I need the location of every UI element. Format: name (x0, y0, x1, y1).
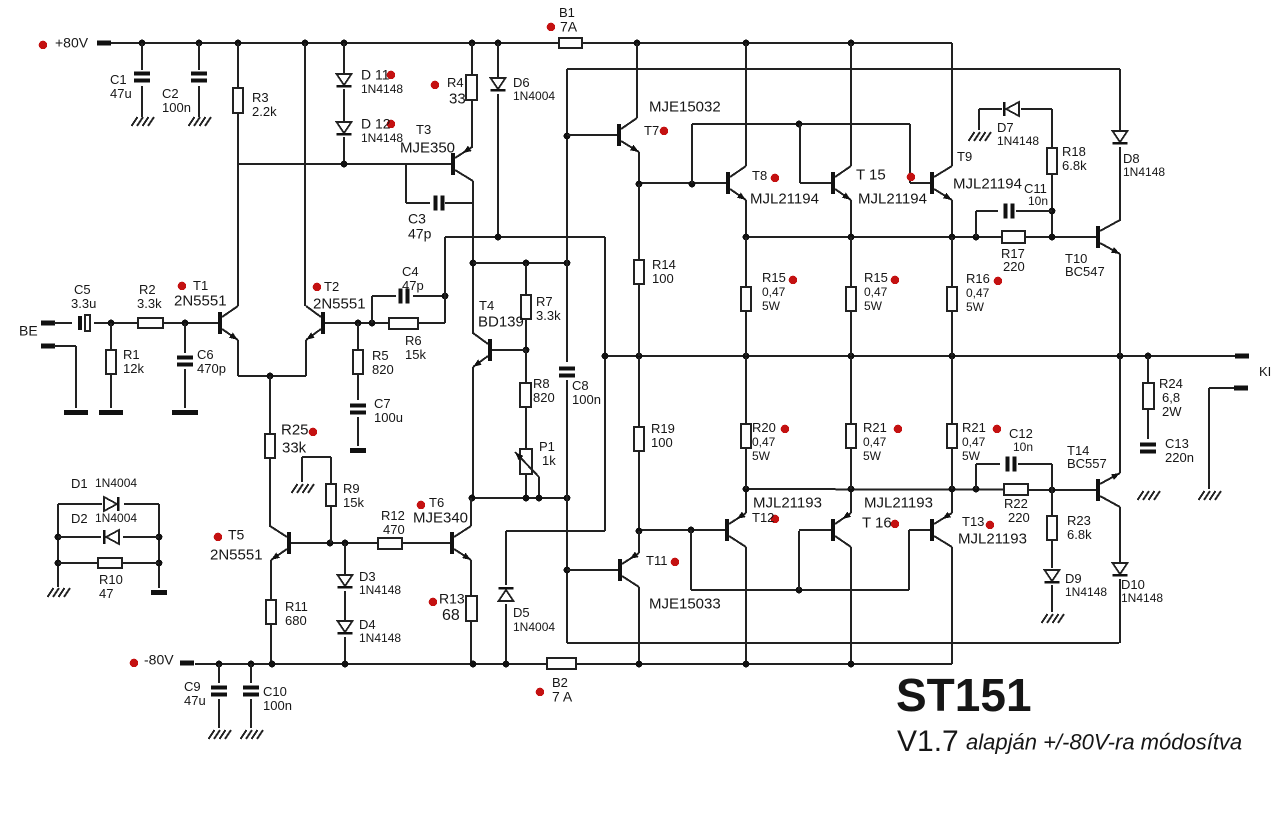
svg-text:D 11: D 11 (361, 67, 390, 83)
svg-text:R23: R23 (1067, 513, 1091, 528)
svg-text:MJE15033: MJE15033 (649, 595, 721, 612)
svg-text:100: 100 (651, 435, 673, 450)
svg-text:D9: D9 (1065, 571, 1082, 586)
svg-text:R11: R11 (285, 599, 308, 614)
svg-text:1N4148: 1N4148 (359, 631, 401, 645)
svg-text:T6: T6 (429, 495, 444, 510)
svg-text:BD139: BD139 (478, 313, 524, 330)
svg-text:C9: C9 (184, 679, 201, 694)
svg-text:6.8k: 6.8k (1062, 158, 1087, 173)
svg-text:C3: C3 (408, 211, 426, 227)
svg-text:MJE350: MJE350 (400, 139, 455, 156)
svg-text:470: 470 (383, 522, 405, 537)
svg-text:R1: R1 (123, 347, 140, 362)
svg-text:100: 100 (652, 271, 674, 286)
svg-text:68: 68 (442, 607, 460, 624)
svg-text:R7: R7 (536, 294, 553, 309)
svg-text:C8: C8 (572, 378, 589, 393)
svg-text:R9: R9 (343, 481, 360, 496)
svg-text:2N5551: 2N5551 (174, 292, 227, 309)
svg-text:0,47: 0,47 (863, 435, 887, 449)
svg-text:MJE15032: MJE15032 (649, 98, 721, 115)
svg-text:R2: R2 (139, 282, 156, 297)
svg-text:1N4004: 1N4004 (95, 511, 137, 525)
svg-text:5W: 5W (863, 449, 882, 463)
svg-text:2N5551: 2N5551 (210, 546, 263, 563)
svg-text:R25: R25 (281, 421, 309, 438)
svg-text:D8: D8 (1123, 151, 1140, 166)
svg-text:T 15: T 15 (856, 166, 886, 183)
svg-text:1N4148: 1N4148 (359, 583, 401, 597)
svg-text:R10: R10 (99, 572, 123, 587)
svg-text:D 12: D 12 (361, 116, 391, 132)
svg-text:R22: R22 (1004, 496, 1028, 511)
svg-text:T11: T11 (646, 553, 667, 568)
svg-text:2.2k: 2.2k (252, 104, 277, 119)
svg-text:C5: C5 (74, 282, 91, 297)
svg-text:6.8k: 6.8k (1067, 527, 1092, 542)
svg-text:T3: T3 (416, 122, 431, 137)
svg-text:1N4148: 1N4148 (1121, 591, 1163, 605)
svg-text:10n: 10n (1028, 194, 1048, 208)
svg-text:2N5551: 2N5551 (313, 295, 366, 312)
svg-text:12k: 12k (123, 361, 144, 376)
svg-text:1N4004: 1N4004 (513, 89, 555, 103)
svg-text:R13: R13 (439, 591, 465, 607)
svg-text:R21: R21 (962, 420, 986, 435)
svg-text:MJL21194: MJL21194 (858, 190, 927, 207)
svg-text:1N4148: 1N4148 (361, 131, 403, 145)
svg-text:47u: 47u (110, 86, 132, 101)
svg-text:R24: R24 (1159, 376, 1183, 391)
svg-text:2W: 2W (1162, 404, 1182, 419)
svg-text:0,47: 0,47 (752, 435, 776, 449)
svg-text:R4: R4 (447, 75, 464, 90)
svg-text:ST151: ST151 (896, 669, 1032, 721)
svg-text:R19: R19 (651, 421, 675, 436)
svg-text:1N4148: 1N4148 (1065, 585, 1107, 599)
svg-text:D4: D4 (359, 617, 376, 632)
svg-text:P1: P1 (539, 439, 555, 454)
svg-text:1N4148: 1N4148 (361, 82, 403, 96)
svg-text:R18: R18 (1062, 144, 1086, 159)
svg-text:100u: 100u (374, 410, 403, 425)
svg-text:5W: 5W (966, 300, 985, 314)
svg-text:1N4148: 1N4148 (997, 134, 1039, 148)
svg-text:220: 220 (1003, 259, 1025, 274)
svg-text:220: 220 (1008, 510, 1030, 525)
svg-text:C10: C10 (263, 684, 287, 699)
svg-text:0,47: 0,47 (762, 285, 786, 299)
svg-text:5W: 5W (762, 299, 781, 313)
svg-text:R14: R14 (652, 257, 676, 272)
svg-text:1N4148: 1N4148 (1123, 165, 1165, 179)
svg-text:R15: R15 (762, 270, 786, 285)
svg-text:C6: C6 (197, 347, 214, 362)
svg-text:7A: 7A (560, 19, 578, 35)
svg-text:MJL21194: MJL21194 (750, 190, 819, 207)
svg-text:T1: T1 (193, 278, 208, 293)
svg-text:BE: BE (19, 323, 38, 339)
svg-text:T7: T7 (644, 123, 659, 138)
svg-text:T13: T13 (962, 514, 984, 529)
svg-text:7 A: 7 A (552, 689, 573, 705)
svg-text:47p: 47p (408, 226, 432, 242)
svg-text:MJE340: MJE340 (413, 509, 468, 526)
svg-text:R15: R15 (864, 270, 888, 285)
svg-text:0,47: 0,47 (962, 435, 986, 449)
svg-text:+80V: +80V (55, 35, 89, 51)
svg-text:D10: D10 (1121, 577, 1145, 592)
svg-text:T9: T9 (957, 149, 972, 164)
svg-text:15k: 15k (343, 495, 364, 510)
svg-text:15k: 15k (405, 347, 426, 362)
svg-text:T2: T2 (324, 279, 339, 294)
svg-text:BC547: BC547 (1065, 264, 1105, 279)
svg-text:D7: D7 (997, 120, 1014, 135)
svg-text:1k: 1k (542, 453, 556, 468)
svg-text:3.3u: 3.3u (71, 296, 96, 311)
svg-text:D2: D2 (71, 511, 88, 526)
svg-text:6,8: 6,8 (1162, 390, 1180, 405)
svg-text:T8: T8 (752, 168, 767, 183)
svg-text:47p: 47p (402, 278, 424, 293)
svg-text:R6: R6 (405, 333, 422, 348)
svg-text:MJL21194: MJL21194 (953, 175, 1022, 192)
svg-text:820: 820 (533, 390, 555, 405)
svg-text:D5: D5 (513, 605, 530, 620)
svg-text:MJL21193: MJL21193 (958, 530, 1027, 547)
svg-text:R5: R5 (372, 348, 389, 363)
svg-text:1N4004: 1N4004 (513, 620, 555, 634)
svg-text:680: 680 (285, 613, 307, 628)
svg-text:0,47: 0,47 (966, 286, 990, 300)
svg-text:V1.7: V1.7 (897, 725, 959, 758)
svg-text:T5: T5 (228, 527, 245, 543)
svg-text:MJL21193: MJL21193 (864, 494, 933, 511)
svg-text:3.3k: 3.3k (137, 296, 162, 311)
svg-text:5W: 5W (962, 449, 981, 463)
svg-text:T4: T4 (479, 298, 494, 313)
svg-text:5W: 5W (752, 449, 771, 463)
svg-text:MJL21193: MJL21193 (753, 494, 822, 511)
svg-text:D6: D6 (513, 75, 530, 90)
svg-text:T 16: T 16 (862, 514, 892, 531)
svg-text:100n: 100n (572, 392, 601, 407)
svg-text:D3: D3 (359, 569, 376, 584)
svg-text:D1: D1 (71, 476, 88, 491)
svg-text:47u: 47u (184, 693, 206, 708)
svg-text:R21: R21 (863, 420, 887, 435)
svg-text:C7: C7 (374, 396, 391, 411)
svg-text:33k: 33k (282, 439, 307, 456)
svg-text:33: 33 (449, 90, 466, 107)
svg-text:470p: 470p (197, 361, 226, 376)
svg-text:C12: C12 (1009, 426, 1033, 441)
svg-text:BC557: BC557 (1067, 456, 1107, 471)
svg-text:T12: T12 (752, 510, 774, 525)
svg-text:-80V: -80V (144, 652, 174, 668)
svg-text:R3: R3 (252, 90, 269, 105)
svg-text:100n: 100n (263, 698, 292, 713)
svg-text:R16: R16 (966, 271, 990, 286)
svg-text:47: 47 (99, 586, 113, 601)
svg-text:220n: 220n (1165, 450, 1194, 465)
svg-text:820: 820 (372, 362, 394, 377)
svg-text:1N4004: 1N4004 (95, 476, 137, 490)
svg-text:C13: C13 (1165, 436, 1189, 451)
svg-text:alapján +/-80V-ra módosítva: alapján +/-80V-ra módosítva (966, 730, 1242, 755)
svg-text:C4: C4 (402, 264, 419, 279)
svg-text:0,47: 0,47 (864, 285, 888, 299)
svg-text:R20: R20 (752, 420, 776, 435)
svg-text:100n: 100n (162, 100, 191, 115)
svg-text:C1: C1 (110, 72, 127, 87)
svg-text:3.3k: 3.3k (536, 308, 561, 323)
svg-text:KI: KI (1259, 364, 1271, 379)
svg-text:10n: 10n (1013, 440, 1033, 454)
svg-text:R12: R12 (381, 508, 405, 523)
svg-text:5W: 5W (864, 299, 883, 313)
svg-text:C2: C2 (162, 86, 179, 101)
svg-text:R8: R8 (533, 376, 550, 391)
